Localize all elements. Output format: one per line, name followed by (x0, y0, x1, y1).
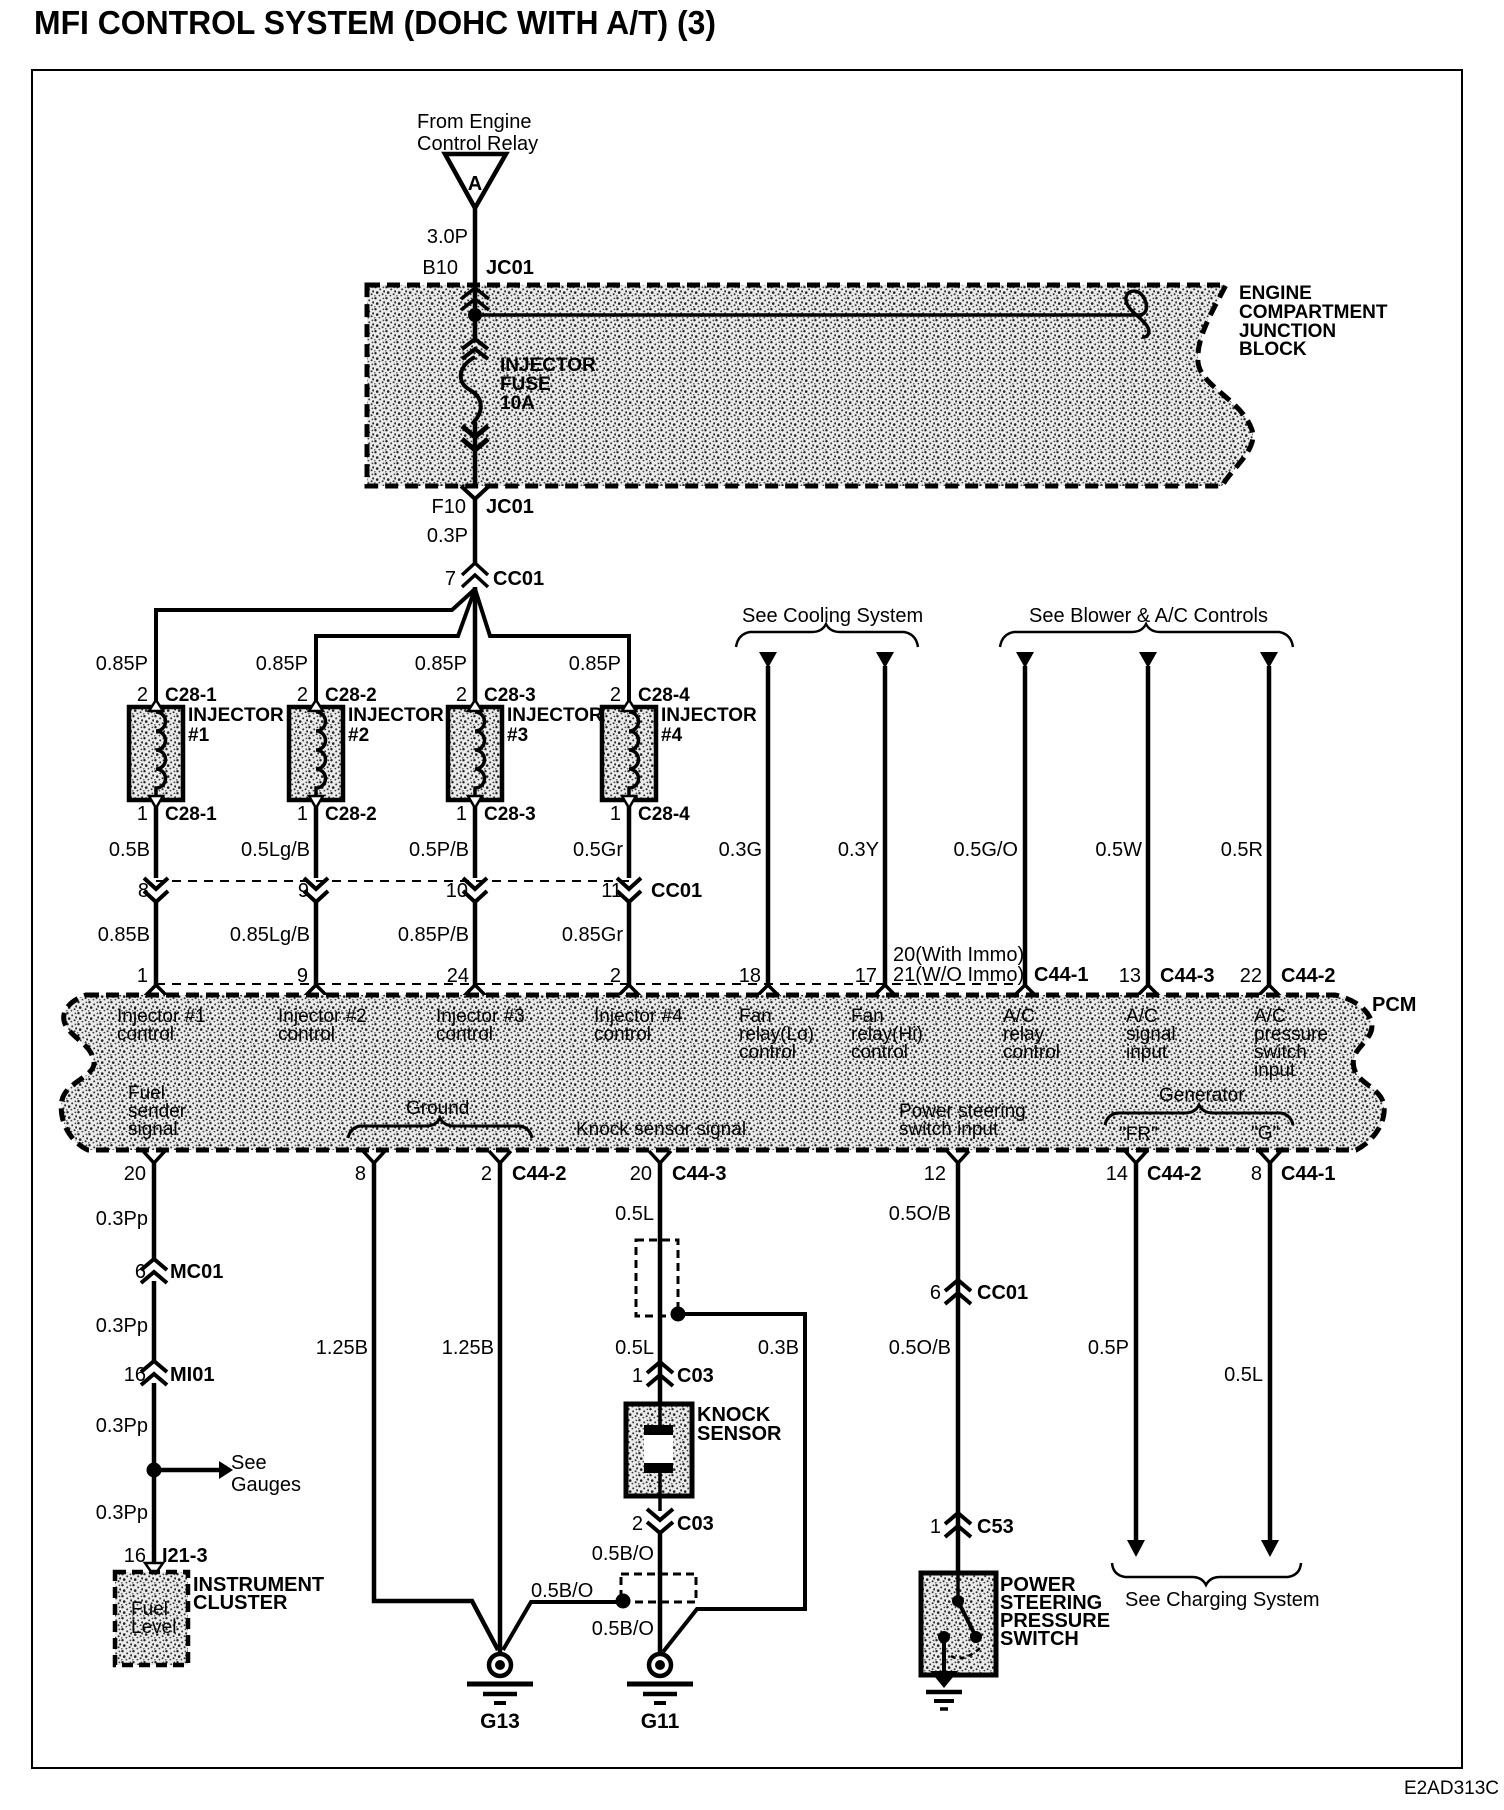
svg-text:INJECTOR: INJECTOR (500, 355, 596, 376)
svg-text:C28-2: C28-2 (325, 685, 377, 706)
svg-text:control: control (851, 1042, 908, 1063)
dashed tie line across CC01 connectors (156, 880, 629, 882)
svg-text:control: control (436, 1024, 493, 1045)
svg-text:C28-3: C28-3 (484, 804, 536, 825)
svg-text:21(W/O Immo): 21(W/O Immo) (893, 964, 1024, 986)
svg-text:CC01: CC01 (977, 1282, 1028, 1304)
connector F10 JC01 at block exit (432, 486, 534, 518)
svg-text:0.5B/O: 0.5B/O (592, 1543, 654, 1565)
wire 0.85Lg/B injector2 to PCM pin 9 (230, 900, 328, 997)
svg-text:0.85P: 0.85P (569, 653, 621, 675)
svg-text:INJECTOR: INJECTOR (348, 705, 444, 726)
svg-text:C53: C53 (977, 1516, 1014, 1538)
svg-text:0.3Y: 0.3Y (838, 839, 879, 861)
svg-text:Level: Level (131, 1617, 176, 1638)
svg-text:0.5P: 0.5P (1088, 1337, 1129, 1359)
wire 0.5B/O knock sensor to ground G11 (592, 1531, 660, 1654)
svg-text:COMPARTMENT: COMPARTMENT (1239, 302, 1388, 323)
svg-text:0.85P/B: 0.85P/B (398, 924, 469, 946)
PCM label injector #1 control (117, 1006, 206, 1045)
svg-text:ENGINE: ENGINE (1239, 283, 1312, 304)
svg-text:10A: 10A (500, 393, 535, 414)
svg-text:PCM: PCM (1372, 994, 1416, 1016)
svg-text:C28-3: C28-3 (484, 685, 536, 706)
svg-text:0.5P/B: 0.5P/B (409, 839, 469, 861)
svg-text:C44-3: C44-3 (1160, 965, 1214, 987)
engine compartment junction block label (1239, 283, 1388, 360)
svg-text:CC01: CC01 (651, 880, 702, 902)
wire 0.5L PCM 20 C44-3 to knock sensor (615, 1151, 726, 1406)
svg-text:9: 9 (298, 880, 309, 902)
svg-text:13: 13 (1119, 965, 1141, 987)
wire inside junction block (bus line with curl) (482, 291, 1149, 337)
svg-text:3.0P: 3.0P (427, 226, 468, 248)
svg-text:#2: #2 (348, 725, 369, 746)
svg-text:control: control (278, 1024, 335, 1045)
connector 16 MI01 (124, 1361, 215, 1386)
svg-text:INJECTOR: INJECTOR (507, 705, 603, 726)
shield dashed box on knock wire (636, 1240, 678, 1316)
svg-text:1: 1 (297, 803, 308, 825)
svg-text:0.3B: 0.3B (758, 1337, 799, 1359)
svg-text:0.3Pp: 0.3Pp (96, 1315, 148, 1337)
svg-text:G13: G13 (480, 1710, 520, 1733)
connector 10 CC01 (446, 878, 487, 902)
svg-text:control: control (1003, 1042, 1060, 1063)
PCM label power steering switch input (899, 1101, 1026, 1140)
svg-text:INJECTOR: INJECTOR (188, 705, 284, 726)
svg-text:0.85P: 0.85P (96, 653, 148, 675)
svg-text:Control Relay: Control Relay (417, 133, 538, 155)
svg-text:20: 20 (630, 1163, 652, 1185)
svg-text:"FR": "FR" (1119, 1124, 1158, 1145)
wire 0.3Pp MC01 to MI01 (96, 1281, 154, 1362)
wire 0.5B/O link to ground G13 (503, 1580, 623, 1650)
svg-text:Ground: Ground (406, 1098, 469, 1119)
svg-text:Gauges: Gauges (231, 1474, 301, 1496)
PCM label fan relay(Hi) control (851, 1006, 923, 1063)
svg-text:INJECTOR: INJECTOR (661, 705, 757, 726)
svg-text:A: A (468, 173, 482, 195)
wire 0.3Y fan relay(Hi) to PCM pin 17 (838, 652, 897, 997)
wire 1.25B PCM pin 8 to ground G13 (316, 1151, 498, 1650)
svg-text:1: 1 (137, 965, 148, 987)
svg-text:17: 17 (855, 965, 877, 987)
see charging system label and brace (1112, 1563, 1320, 1611)
power steering pressure switch (921, 1573, 1110, 1675)
svg-text:0.5G/O: 0.5G/O (954, 839, 1018, 861)
svg-text:See Blower & A/C Controls: See Blower & A/C Controls (1029, 605, 1268, 627)
svg-text:C44-1: C44-1 (1034, 964, 1088, 986)
see cooling system label and brace (736, 605, 923, 647)
svg-text:0.5Gr: 0.5Gr (573, 839, 623, 861)
svg-text:0.3P: 0.3P (427, 525, 468, 547)
wire 0.5R A/C pressure switch input to PCM 22 C44-2 (1221, 652, 1336, 997)
svg-text:0.85Gr: 0.85Gr (562, 924, 623, 946)
svg-text:JC01: JC01 (486, 257, 534, 279)
injector #4 (coil) with connector C28-4 (569, 653, 757, 825)
svg-text:#4: #4 (661, 725, 683, 746)
svg-text:8: 8 (138, 880, 149, 902)
injector fuse 10A (461, 288, 596, 486)
instrument cluster (fuel level) (115, 1572, 324, 1665)
svg-text:12: 12 (924, 1163, 946, 1185)
svg-text:C28-1: C28-1 (165, 685, 217, 706)
svg-text:0.3Pp: 0.3Pp (96, 1502, 148, 1524)
arrow see gauges (154, 1452, 301, 1496)
injector #3 (coil) with connector C28-3 (415, 653, 603, 825)
connector 6 CC01 (power steering) (930, 1280, 1028, 1304)
svg-text:MI01: MI01 (170, 1364, 214, 1386)
svg-text:C03: C03 (677, 1365, 714, 1387)
wire 0.3P to CC01 (427, 497, 475, 564)
svg-text:C44-2: C44-2 (512, 1163, 566, 1185)
connector B10 JC01 (422, 257, 533, 310)
svg-text:2: 2 (137, 684, 148, 706)
svg-text:I21-3: I21-3 (162, 1545, 208, 1567)
connector 11 CC01 (601, 878, 702, 902)
svg-text:input: input (1254, 1060, 1296, 1081)
svg-text:0.85P: 0.85P (415, 653, 467, 675)
svg-text:C44-2: C44-2 (1281, 965, 1335, 987)
PCM label A/C signal input (1126, 1006, 1176, 1063)
ground G11 (627, 1654, 693, 1733)
wire 3.0P from relay to junction block (427, 206, 475, 291)
svg-text:B10: B10 (422, 257, 458, 279)
PCM label A/C relay control (1003, 1006, 1060, 1063)
svg-text:0.5L: 0.5L (1224, 1364, 1263, 1386)
svg-text:signal: signal (128, 1119, 178, 1140)
svg-text:2: 2 (481, 1163, 492, 1185)
PCM label generator with brace (1105, 1085, 1293, 1125)
svg-text:0.5B/O: 0.5B/O (531, 1580, 593, 1602)
connector 6 MC01 (135, 1259, 223, 1283)
PCM label fuel sender signal (128, 1083, 187, 1140)
svg-text:1: 1 (930, 1516, 941, 1538)
svg-text:0.5Lg/B: 0.5Lg/B (241, 839, 310, 861)
PCM label FR (1119, 1124, 1158, 1145)
svg-text:See: See (231, 1452, 267, 1474)
svg-text:16: 16 (124, 1364, 146, 1386)
wire 0.85P/B injector3 to PCM pin 24 (398, 900, 487, 997)
ground G13 (467, 1654, 533, 1733)
svg-text:C28-4: C28-4 (638, 685, 690, 706)
wire 0.5P generator FR to charging system (1088, 1151, 1202, 1557)
svg-text:SWITCH: SWITCH (1000, 1628, 1079, 1650)
svg-text:10: 10 (446, 880, 468, 902)
svg-text:input: input (1126, 1042, 1168, 1063)
svg-text:#3: #3 (507, 725, 528, 746)
svg-text:14: 14 (1106, 1163, 1128, 1185)
svg-text:See Cooling System: See Cooling System (742, 605, 923, 627)
svg-text:2: 2 (456, 684, 467, 706)
svg-text:18: 18 (739, 965, 761, 987)
svg-text:0.85B: 0.85B (98, 924, 150, 946)
svg-text:6: 6 (930, 1282, 941, 1304)
junction dot 0.5B/O splice (616, 1594, 631, 1609)
junction node to gauges (147, 1463, 162, 1478)
svg-text:0.3Pp: 0.3Pp (96, 1415, 148, 1437)
svg-text:Knock sensor signal: Knock sensor signal (576, 1119, 746, 1140)
svg-text:Generator: Generator (1159, 1085, 1245, 1106)
PCM label G (1251, 1123, 1279, 1144)
svg-text:1: 1 (610, 803, 621, 825)
svg-text:1.25B: 1.25B (316, 1337, 368, 1359)
svg-text:11: 11 (601, 880, 622, 902)
svg-text:#1: #1 (188, 725, 210, 746)
wire 0.5G/O A/C relay control to PCM C44-1 (893, 652, 1088, 997)
connector 9 CC01 (298, 878, 328, 902)
svg-text:0.5B: 0.5B (109, 839, 150, 861)
svg-text:"G": "G" (1251, 1123, 1279, 1144)
svg-text:0.5B/O: 0.5B/O (592, 1618, 654, 1640)
wire branch to injector 3 (473, 587, 478, 705)
wire 0.3G fan relay(Lo) to PCM pin 18 (719, 652, 780, 997)
connector 1 C53 (930, 1513, 1014, 1538)
svg-text:C28-2: C28-2 (325, 804, 377, 825)
wire 0.85Gr injector4 to PCM pin 2 (562, 900, 641, 997)
dashed connector face line above PCM (156, 983, 1016, 985)
svg-text:0.5W: 0.5W (1095, 839, 1142, 861)
svg-text:0.3G: 0.3G (719, 839, 762, 861)
see blower and A/C controls label and brace (1000, 605, 1293, 647)
svg-text:16: 16 (124, 1545, 146, 1567)
svg-text:0.85P: 0.85P (256, 653, 308, 675)
svg-text:G11: G11 (641, 1710, 680, 1733)
svg-text:C44-2: C44-2 (1147, 1163, 1201, 1185)
connector 2 C03 (632, 1509, 714, 1535)
svg-text:1: 1 (456, 803, 467, 825)
wire 0.5P/B injector3 to CC01 (409, 806, 475, 878)
wire 0.5B injector1 to CC01 (109, 806, 156, 878)
wire fuel sender signal PCM pin 20 (96, 1151, 165, 1260)
svg-text:8: 8 (1251, 1163, 1262, 1185)
connector 1 C03 (632, 1362, 714, 1387)
ground (power steering switch case) (926, 1671, 962, 1709)
svg-text:1.25B: 1.25B (442, 1337, 494, 1359)
svg-text:CLUSTER: CLUSTER (193, 1592, 288, 1614)
wire 0.5O/B PCM pin 12 to power steering switch (889, 1151, 969, 1575)
svg-text:6: 6 (135, 1261, 146, 1283)
svg-text:F10: F10 (432, 496, 466, 518)
title (34, 4, 716, 41)
svg-text:E2AD313C: E2AD313C (1404, 1778, 1499, 1799)
wire 0.3B shield drain to ground G11 (663, 1314, 805, 1652)
knock sensor (626, 1404, 782, 1511)
svg-text:0.5L: 0.5L (615, 1203, 654, 1225)
svg-text:2: 2 (632, 1513, 643, 1535)
svg-text:control: control (739, 1042, 796, 1063)
PCM label A/C pressure switch input (1254, 1006, 1328, 1081)
svg-text:C44-3: C44-3 (672, 1163, 726, 1185)
wire branch to injector 2 (316, 589, 475, 705)
svg-text:switch input: switch input (899, 1119, 999, 1140)
svg-text:0.5O/B: 0.5O/B (889, 1203, 951, 1225)
junction dot on fuse feed (468, 308, 482, 322)
node A from engine control relay (417, 111, 538, 208)
PCM label injector #4 control (594, 1006, 683, 1045)
svg-text:See Charging System: See Charging System (1125, 1589, 1320, 1611)
svg-text:0.3Pp: 0.3Pp (96, 1208, 148, 1230)
svg-text:1: 1 (632, 1365, 643, 1387)
PCM label injector #3 control (436, 1006, 525, 1045)
wire 1.25B PCM pin 2 C44-2 to ground G13 (442, 1151, 567, 1654)
svg-text:0.5L: 0.5L (615, 1337, 654, 1359)
connector 16 I21-3 (124, 1545, 208, 1576)
injector #2 (coil) with connector C28-2 (256, 653, 444, 825)
wire 0.85B injector1 to PCM pin 1 (98, 900, 168, 997)
PCM block (61, 994, 1416, 1150)
svg-text:MC01: MC01 (170, 1261, 223, 1283)
svg-text:C28-4: C28-4 (638, 804, 690, 825)
wire branch to injector 4 (475, 589, 629, 705)
svg-text:1: 1 (137, 803, 148, 825)
svg-text:control: control (117, 1024, 174, 1045)
svg-text:From Engine: From Engine (417, 111, 532, 133)
svg-text:BLOCK: BLOCK (1239, 339, 1307, 360)
injector #1 (coil) with connector C28-1 (96, 653, 284, 825)
document code E2AD313C (1404, 1778, 1499, 1799)
svg-text:7: 7 (445, 568, 456, 590)
wire 0.5Lg/B injector2 to CC01 (241, 806, 316, 878)
svg-text:0.85Lg/B: 0.85Lg/B (230, 924, 310, 946)
svg-text:0.5R: 0.5R (1221, 839, 1263, 861)
svg-text:20(With Immo): 20(With Immo) (893, 944, 1024, 966)
splice dashed box at ground junction (621, 1574, 696, 1602)
svg-text:C28-1: C28-1 (165, 804, 217, 825)
connector 7 CC01 (445, 563, 544, 590)
svg-text:SENSOR: SENSOR (697, 1423, 782, 1445)
svg-text:8: 8 (355, 1163, 366, 1185)
PCM label injector #2 control (278, 1006, 367, 1045)
svg-text:22: 22 (1240, 965, 1262, 987)
svg-text:0.5O/B: 0.5O/B (889, 1337, 951, 1359)
svg-text:C44-1: C44-1 (1281, 1163, 1335, 1185)
wire 0.5L generator G to charging system (1224, 1151, 1335, 1557)
connector 8 CC01 (138, 878, 168, 902)
svg-text:MFI CONTROL SYSTEM (DOHC WITH: MFI CONTROL SYSTEM (DOHC WITH A/T) (3) (34, 4, 716, 41)
svg-text:JC01: JC01 (486, 496, 534, 518)
PCM label fan relay(Lo) control (739, 1006, 814, 1063)
svg-text:2: 2 (610, 684, 621, 706)
PCM label ground with brace (348, 1098, 532, 1138)
svg-text:2: 2 (297, 684, 308, 706)
svg-text:control: control (594, 1024, 651, 1045)
junction dot shield drain (671, 1307, 686, 1322)
wire branch to injector 1 (156, 589, 475, 705)
svg-text:FUSE: FUSE (500, 374, 551, 395)
svg-text:20: 20 (124, 1163, 146, 1185)
wire 0.5W A/C signal input to PCM 13 C44-3 (1095, 652, 1214, 997)
PCM label knock sensor signal (576, 1119, 746, 1140)
wire 0.3Pp MI01 to instrument cluster (96, 1383, 154, 1563)
svg-text:C03: C03 (677, 1513, 714, 1535)
wire 0.5Gr injector4 to CC01 (573, 806, 629, 878)
engine compartment junction block body (367, 285, 1253, 486)
svg-text:CC01: CC01 (493, 568, 544, 590)
